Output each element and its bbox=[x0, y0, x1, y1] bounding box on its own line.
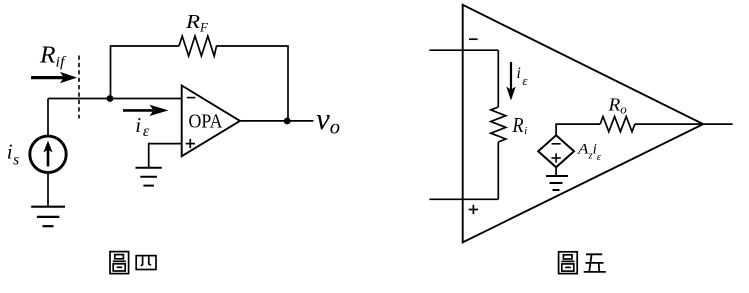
svg-text:OPA: OPA bbox=[189, 110, 223, 132]
svg-text:RF: RF bbox=[185, 11, 209, 34]
svg-text:Rif: Rif bbox=[39, 41, 67, 70]
svg-text:Ro: Ro bbox=[607, 95, 627, 117]
svg-text:iε: iε bbox=[135, 113, 150, 140]
svg-text:Aziε: Aziε bbox=[577, 141, 602, 163]
svg-text:vo: vo bbox=[316, 101, 340, 139]
svg-text:iε: iε bbox=[517, 65, 529, 88]
svg-text:Ri: Ri bbox=[512, 113, 528, 137]
svg-text:is: is bbox=[7, 140, 19, 169]
